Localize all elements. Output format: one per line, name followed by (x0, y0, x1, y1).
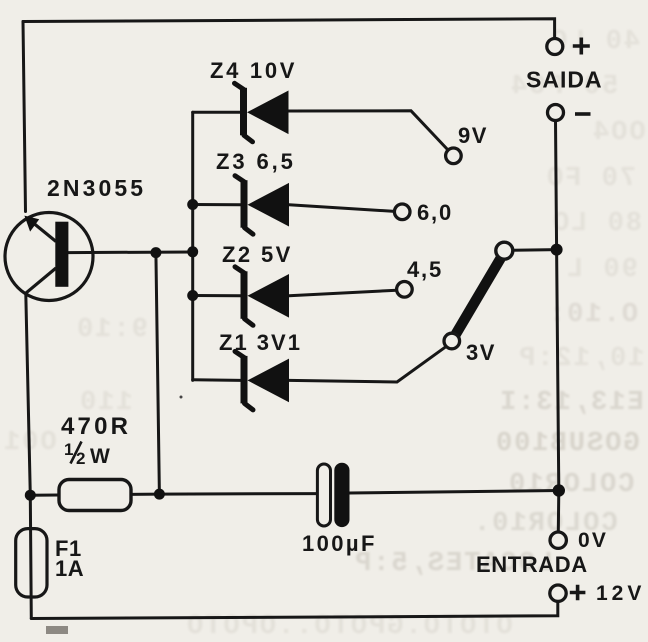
wire: resistor row left segment (30, 494, 59, 497)
terminal + SAIDA (547, 39, 563, 55)
svg-text:W: W (90, 445, 110, 468)
junction: right bus at switch wire (551, 244, 563, 256)
svg-text:ENTRADA: ENTRADA (476, 552, 588, 577)
wire: left rail lower (transistor to fuse to bottom corner) (26, 294, 32, 619)
base bar (55, 222, 68, 287)
svg-text:1: 1 (64, 440, 73, 459)
svg-text:Z3 6,5: Z3 6,5 (216, 149, 296, 174)
wire: resistor row right segment (131, 493, 159, 496)
wire: base of Q1 to zener bus (68, 251, 192, 255)
wire: Z2 cathode to bus (193, 294, 241, 297)
fuse F1 body (16, 529, 47, 597)
terminal - SAIDA (548, 105, 564, 121)
wire: capacitor row right segment (350, 491, 559, 494)
svg-text:Z4 10V: Z4 10V (210, 58, 297, 83)
wire: Z3 cathode to bus (193, 203, 241, 206)
wire: Z4 anode to 9V contact (289, 111, 449, 151)
wire: right bus from - terminal down to 0V terminal (556, 121, 559, 532)
terminal +12V (550, 585, 566, 601)
svg-text:470R: 470R (61, 413, 131, 440)
svg-text:2: 2 (76, 449, 85, 468)
zener Z4 (235, 83, 289, 142)
svg-text:100µF: 100µF (302, 531, 377, 556)
wire: capacitor row left segment (159, 492, 317, 496)
svg-text:2N3055: 2N3055 (47, 175, 146, 201)
stray mark bottom left (46, 626, 68, 634)
terminal 0V (550, 532, 566, 548)
zener Z2 (235, 267, 289, 326)
wire: top rail from left corner to + output terminal (23, 19, 555, 39)
svg-text:0V: 0V (578, 529, 608, 552)
junction: bus at base wire (187, 246, 198, 257)
svg-text:Z2 5V: Z2 5V (222, 242, 293, 267)
minus sign output (575, 112, 591, 116)
svg-text:SAIDA: SAIDA (526, 67, 603, 93)
wire: zener bus vertical (191, 112, 194, 380)
wire: Z1 anode to 3V contact (289, 346, 446, 382)
svg-text:4,5: 4,5 (407, 257, 443, 282)
wire: Z2 anode to 4,5 contact (289, 290, 397, 296)
svg-text:12V: 12V (596, 582, 645, 605)
switch pivot contact (496, 242, 513, 259)
zener Z3 (235, 176, 289, 235)
contact 9V (446, 148, 462, 164)
plus sign output (573, 38, 590, 55)
junction: right bus at capacitor row (553, 484, 565, 496)
label 1/2W (64, 440, 110, 468)
svg-text:3V: 3V (466, 340, 496, 365)
capacitor C1 positive plate (solid) (334, 463, 349, 527)
junction: bus at Z3 (187, 199, 198, 210)
contact 4,5 (397, 282, 413, 298)
wire: switch pivot to right bus (513, 248, 557, 252)
capacitor C1 negative plate (outline) (317, 464, 330, 526)
wire: bottom rail to +12V terminal riser (31, 602, 558, 619)
switch arm (wiper to 3V) (455, 258, 501, 336)
junction: base wire / vertical (150, 247, 161, 258)
contact 6,0 (394, 204, 410, 220)
collector lead (25, 268, 56, 294)
emitter arrowhead (24, 216, 39, 232)
wire: Z4 cathode to bus (193, 111, 240, 114)
plus sign input (570, 585, 586, 601)
stray dot (180, 396, 183, 399)
svg-text:9V: 9V (458, 123, 488, 148)
transistor Q1 2N3055 (5, 213, 93, 301)
junction: left rail at resistor row (25, 490, 36, 501)
svg-text:Z1 3V1: Z1 3V1 (219, 330, 302, 355)
wire: vertical from base junction down to resistor row (156, 253, 160, 495)
svg-text:6,0: 6,0 (417, 200, 453, 225)
wire: Z3 anode to 6,0 contact (289, 205, 395, 212)
wire: left rail upper (collector side, down to transistor) (23, 22, 26, 212)
junction: bus at Z2 (187, 290, 198, 301)
zener Z1 (235, 351, 289, 410)
contact 3V (444, 333, 460, 349)
resistor R1 470R body (59, 480, 131, 511)
junction: resistor row / vertical (154, 489, 165, 500)
emitter lead (29, 220, 56, 242)
wire: Z1 cathode to bus (193, 378, 241, 382)
svg-text:1A: 1A (55, 556, 84, 581)
transistor body circle (5, 213, 93, 301)
